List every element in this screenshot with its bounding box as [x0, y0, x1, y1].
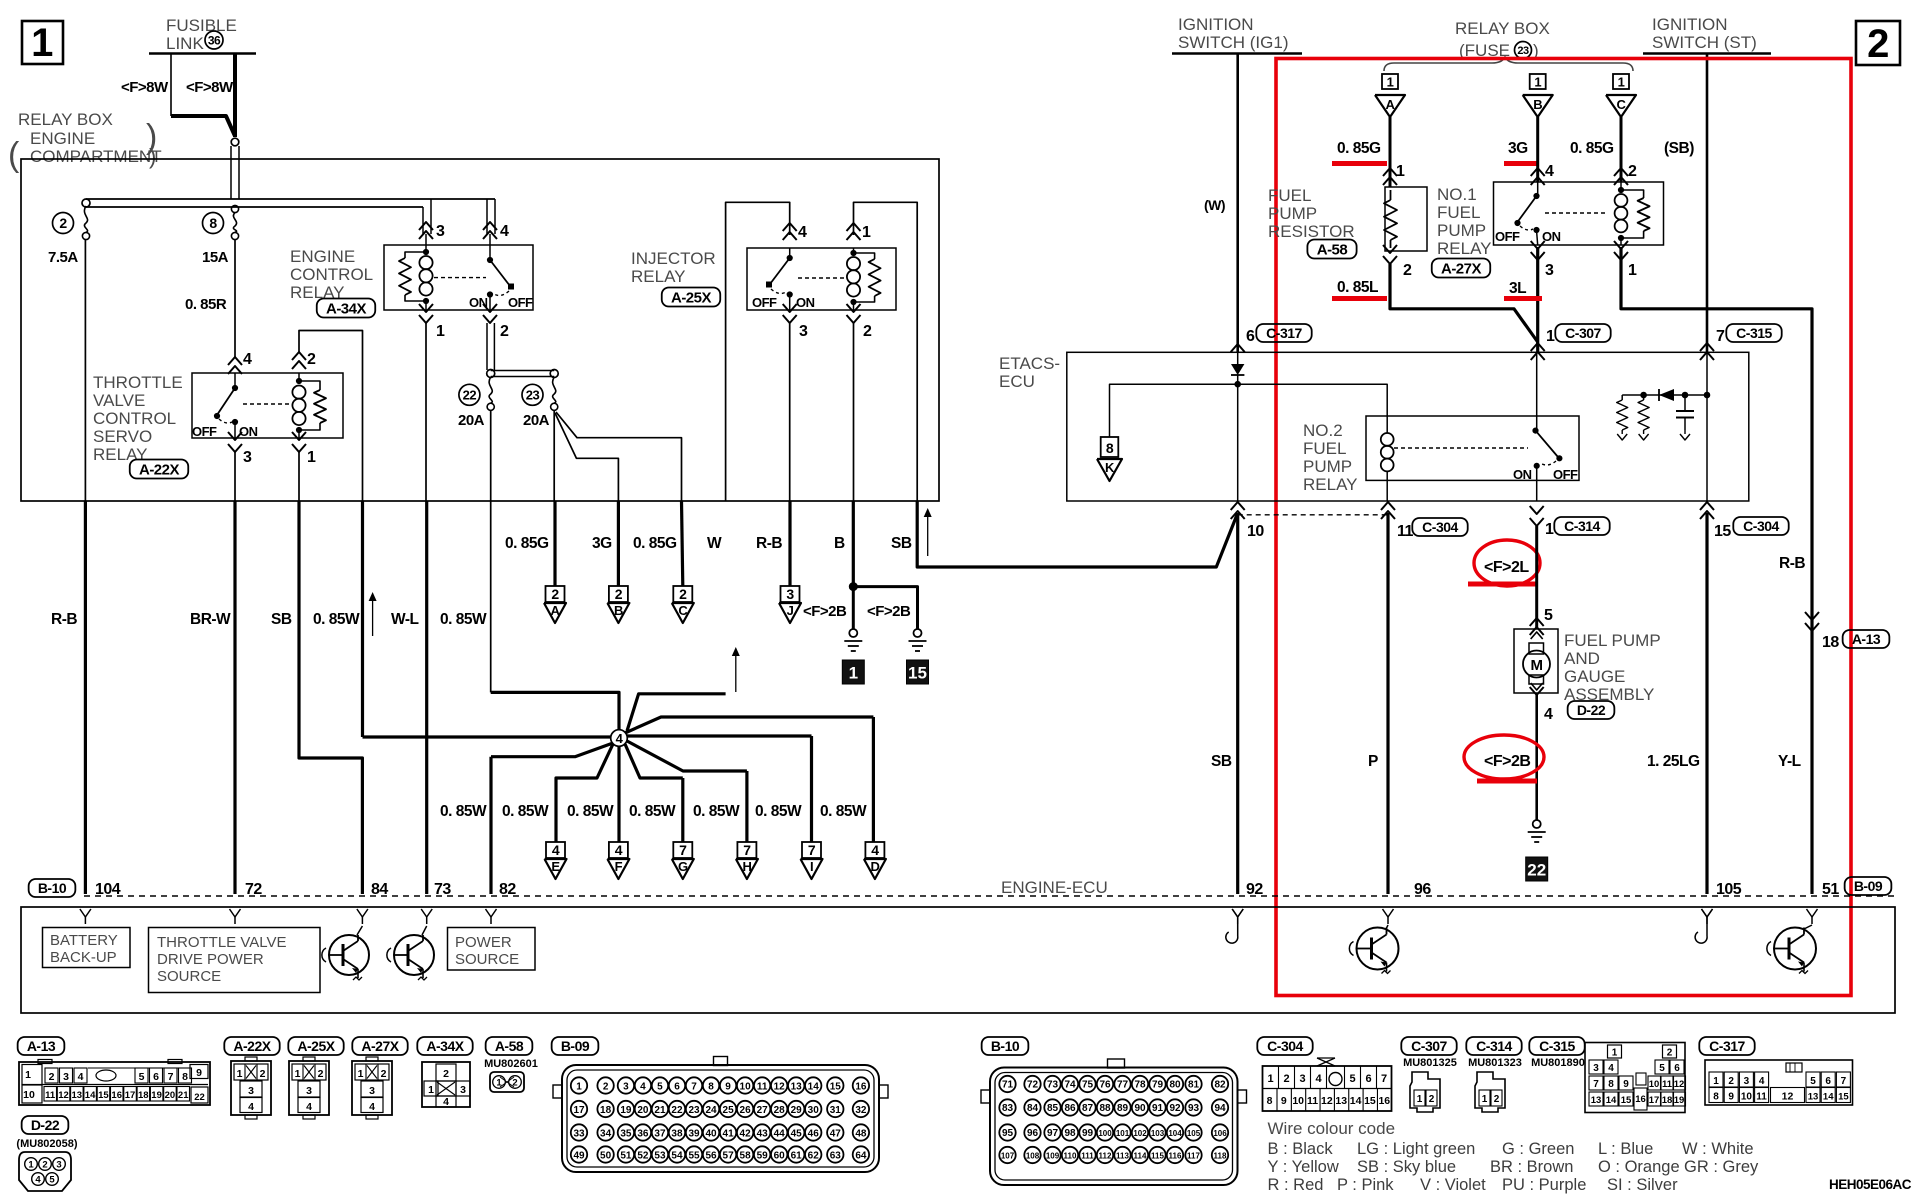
svg-text:29: 29	[791, 1105, 803, 1116]
connector 7 I	[802, 842, 821, 858]
relay A-27X pin 1	[1614, 241, 1628, 249]
svg-text:RELAY: RELAY	[631, 267, 686, 286]
svg-text:7: 7	[679, 842, 687, 858]
svg-text:26: 26	[740, 1105, 752, 1116]
svg-text:C-315: C-315	[1539, 1038, 1575, 1054]
relay A-22X switch	[232, 385, 237, 390]
svg-text:(: (	[8, 136, 20, 174]
svg-text:(MU802058): (MU802058)	[16, 1138, 77, 1150]
svg-text:4: 4	[35, 1175, 41, 1186]
svg-text:32: 32	[855, 1105, 867, 1116]
connector 2 A	[546, 586, 565, 602]
svg-text:106: 106	[1213, 1129, 1227, 1138]
svg-text:11: 11	[45, 1090, 56, 1101]
wire 0.85W to F	[617, 746, 620, 842]
svg-text:A-25X: A-25X	[671, 289, 712, 306]
svg-text:6: 6	[1674, 1063, 1680, 1074]
svg-text:I: I	[810, 859, 813, 874]
relay A-34X pin 1	[419, 304, 433, 312]
relay A-27X pin 2	[1614, 168, 1628, 176]
svg-text:14: 14	[808, 1081, 820, 1092]
svg-text:87: 87	[1082, 1103, 1094, 1114]
ECU hook 92	[1232, 909, 1243, 917]
arrow up beside SB wire	[927, 514, 929, 556]
svg-text:Wire colour code: Wire colour code	[1268, 1119, 1396, 1138]
svg-text:2: 2	[500, 323, 509, 340]
svg-text:0. 85G: 0. 85G	[633, 535, 677, 552]
svg-text:2: 2	[615, 586, 623, 602]
svg-text:NO.1: NO.1	[1437, 185, 1477, 204]
wire to resistor	[1389, 117, 1392, 187]
svg-text:MU801323: MU801323	[1468, 1057, 1522, 1069]
svg-text:8: 8	[209, 215, 217, 231]
svg-text:B-09: B-09	[1854, 878, 1883, 894]
svg-text:D-22: D-22	[1577, 702, 1606, 718]
connector A-27X drawing	[352, 1061, 392, 1115]
node dot	[1235, 381, 1241, 387]
svg-text:1: 1	[295, 1068, 301, 1080]
svg-text:(SB): (SB)	[1664, 140, 1694, 157]
svg-text:15: 15	[908, 664, 927, 683]
svg-text:102: 102	[1133, 1129, 1147, 1138]
svg-text:20: 20	[165, 1090, 176, 1101]
bus wire lower	[86, 206, 423, 208]
svg-text:SERVO: SERVO	[93, 427, 152, 446]
svg-text:ON: ON	[796, 295, 815, 310]
svg-text:4: 4	[640, 1081, 646, 1092]
svg-text:2: 2	[1728, 1076, 1734, 1087]
svg-text:MU801325: MU801325	[1403, 1057, 1457, 1069]
svg-text:37: 37	[654, 1128, 666, 1139]
svg-text:82: 82	[499, 881, 516, 898]
svg-text:1: 1	[25, 1069, 31, 1081]
svg-text:96: 96	[1027, 1128, 1039, 1139]
wire SB down from pin 1	[298, 452, 300, 501]
svg-text:G: G	[678, 859, 688, 874]
svg-text:99: 99	[1082, 1128, 1094, 1139]
svg-text:89: 89	[1117, 1103, 1129, 1114]
connector label D-22	[22, 1116, 69, 1134]
svg-text:108: 108	[1026, 1151, 1040, 1160]
svg-text:4: 4	[78, 1071, 84, 1083]
svg-text:R : Red: R : Red	[1268, 1176, 1324, 1194]
fuse connector 1 A	[1382, 74, 1398, 89]
svg-text:47: 47	[830, 1128, 842, 1139]
POWER SOURCE box	[448, 928, 536, 971]
svg-text:13: 13	[1808, 1092, 1819, 1103]
svg-text:77: 77	[1117, 1079, 1129, 1090]
svg-text:13: 13	[1591, 1095, 1602, 1106]
svg-text:Y : Yellow: Y : Yellow	[1268, 1158, 1339, 1176]
svg-text:DRIVE POWER: DRIVE POWER	[157, 951, 264, 968]
ETACS pin 15 C-304	[1700, 502, 1714, 510]
svg-text:40: 40	[705, 1128, 717, 1139]
svg-text:52: 52	[637, 1150, 649, 1161]
svg-text:3G: 3G	[1508, 140, 1528, 157]
svg-text:ENGINE: ENGINE	[30, 129, 95, 148]
relay A-34X pin 4	[483, 222, 497, 230]
connector C-317 drawing	[1705, 1060, 1853, 1105]
svg-text:0. 85W: 0. 85W	[820, 803, 867, 820]
wire BR-W down	[234, 452, 236, 501]
svg-text:C-317: C-317	[1266, 325, 1302, 341]
red underline 0.85G	[1332, 161, 1387, 166]
connector label C-315	[1529, 1037, 1584, 1055]
circled 36	[205, 31, 223, 49]
wire 3L down	[1536, 247, 1539, 352]
svg-text:10: 10	[1649, 1079, 1660, 1090]
internal node line	[1622, 394, 1707, 396]
svg-text:19: 19	[1674, 1095, 1685, 1106]
connector 2 C	[673, 586, 692, 602]
svg-text:8: 8	[1713, 1092, 1719, 1103]
relay A-22X pin 3	[228, 432, 242, 440]
svg-text:0. 85W: 0. 85W	[629, 803, 676, 820]
svg-text:49: 49	[573, 1150, 585, 1161]
BATTERY BACK-UP box	[43, 928, 131, 968]
svg-text:92: 92	[1246, 881, 1263, 898]
svg-text:11: 11	[1397, 523, 1414, 540]
red underline 3G	[1504, 161, 1538, 166]
svg-text:C-304: C-304	[1422, 519, 1458, 535]
svg-text:4: 4	[1315, 1073, 1322, 1085]
svg-text:10: 10	[1741, 1092, 1753, 1103]
svg-text:C-314: C-314	[1476, 1038, 1512, 1054]
wire to fuel pump	[1535, 526, 1538, 629]
svg-text:1: 1	[1482, 1094, 1488, 1105]
svg-text:6: 6	[674, 1081, 680, 1092]
svg-text:78: 78	[1134, 1079, 1146, 1090]
svg-text:B-09: B-09	[561, 1038, 590, 1054]
svg-text:97: 97	[1047, 1128, 1059, 1139]
svg-text:THROTTLE VALVE: THROTTLE VALVE	[157, 934, 286, 951]
svg-text:117: 117	[1187, 1151, 1200, 1160]
connector C-314 drawing	[1475, 1072, 1505, 1112]
svg-text:33: 33	[573, 1128, 585, 1139]
svg-text:0. 85W: 0. 85W	[440, 611, 487, 628]
svg-text:IGNITION: IGNITION	[1652, 15, 1728, 34]
svg-text:GR : Grey: GR : Grey	[1684, 1158, 1759, 1176]
svg-text:7: 7	[1381, 1073, 1387, 1085]
svg-text:PUMP: PUMP	[1437, 221, 1486, 240]
connector label A-27X	[352, 1037, 407, 1055]
svg-text:1: 1	[1612, 1048, 1618, 1059]
relay A-27X coil	[1620, 182, 1622, 190]
svg-text:4: 4	[1545, 163, 1554, 180]
svg-text:SOURCE: SOURCE	[157, 968, 221, 985]
svg-text:45: 45	[791, 1128, 803, 1139]
svg-text:3: 3	[243, 449, 252, 466]
ground 22	[1533, 820, 1541, 828]
fuse connector 1 B	[1530, 74, 1546, 89]
svg-text:4: 4	[369, 1101, 375, 1113]
svg-text:58: 58	[740, 1150, 752, 1161]
svg-text:51: 51	[1822, 881, 1839, 898]
svg-text:105: 105	[1187, 1129, 1201, 1138]
svg-text:1: 1	[358, 1068, 364, 1080]
brace under relay box fuse	[1384, 57, 1633, 71]
connector label A-27X	[1432, 259, 1491, 278]
svg-text:109: 109	[1046, 1151, 1060, 1160]
connector label D-22	[1568, 701, 1615, 719]
bus wire upper	[86, 198, 495, 200]
ground left	[849, 629, 857, 637]
svg-text:R-B: R-B	[51, 611, 77, 628]
svg-text:73: 73	[434, 881, 451, 898]
fusible link elbow	[171, 116, 235, 136]
pin 6 C-317	[1231, 344, 1245, 352]
svg-text:W: W	[707, 535, 722, 552]
svg-text:18: 18	[600, 1105, 612, 1116]
svg-text:J: J	[787, 603, 794, 618]
svg-text:1: 1	[436, 323, 445, 340]
fuse connector 1 C	[1613, 74, 1629, 89]
svg-text:SWITCH (ST): SWITCH (ST)	[1652, 33, 1757, 52]
svg-text:92: 92	[1169, 1103, 1181, 1114]
svg-text:6: 6	[1825, 1076, 1831, 1087]
svg-text:(W): (W)	[1204, 197, 1225, 213]
wire to connector 8K	[1110, 384, 1238, 437]
svg-text:2: 2	[443, 1068, 449, 1080]
svg-text:91: 91	[1152, 1103, 1164, 1114]
svg-text:4: 4	[871, 842, 879, 858]
svg-text:59: 59	[757, 1150, 769, 1161]
svg-text:IGNITION: IGNITION	[1178, 15, 1254, 34]
svg-text:4: 4	[248, 1101, 254, 1113]
connector C-307 drawing	[1410, 1072, 1440, 1112]
svg-text:L : Blue: L : Blue	[1598, 1140, 1653, 1158]
svg-text:): )	[149, 144, 156, 169]
svg-text:MU802601: MU802601	[484, 1058, 538, 1070]
svg-text:15: 15	[1621, 1095, 1632, 1106]
svg-text:94: 94	[1214, 1103, 1226, 1114]
motor M	[1529, 643, 1544, 654]
svg-text:2: 2	[307, 351, 316, 368]
svg-text:0. 85W: 0. 85W	[693, 803, 740, 820]
wire B down	[853, 323, 855, 501]
wire 3G to relay	[1536, 117, 1539, 182]
svg-text:13: 13	[1335, 1095, 1347, 1107]
bus end circle	[82, 199, 90, 207]
svg-text:61: 61	[791, 1150, 803, 1161]
relay A-25X pin 1	[847, 223, 861, 231]
ETACS pin 11 C-304	[1381, 502, 1395, 510]
svg-text:C-315: C-315	[1736, 325, 1772, 341]
svg-text:11: 11	[757, 1081, 768, 1092]
wire SB to ECU 92	[1236, 513, 1239, 894]
wire 0.85W A22X to junction	[361, 501, 364, 737]
svg-text:D: D	[870, 859, 879, 874]
connector B-10 drawing	[990, 1068, 1238, 1186]
connector A-22X drawing	[231, 1061, 271, 1115]
svg-text:K: K	[1105, 460, 1115, 475]
fuse 8 15A	[231, 205, 238, 212]
svg-text:SB: SB	[1211, 753, 1232, 770]
connector 4 E	[546, 842, 565, 858]
svg-text:2: 2	[679, 586, 687, 602]
ground branch junction	[849, 583, 857, 591]
red underline 2L	[1468, 582, 1537, 587]
svg-text:3: 3	[460, 1084, 466, 1096]
ECU transistor 96	[1357, 928, 1399, 970]
svg-text:A-58: A-58	[1317, 241, 1348, 258]
svg-text:42: 42	[740, 1128, 752, 1139]
svg-text:BR : Brown: BR : Brown	[1490, 1158, 1573, 1176]
svg-text:31: 31	[830, 1105, 842, 1116]
svg-text:28: 28	[774, 1105, 786, 1116]
wire 0.85G C branch	[556, 412, 682, 501]
svg-text:OFF: OFF	[752, 295, 777, 310]
svg-text:D-22: D-22	[31, 1117, 60, 1133]
svg-text:3: 3	[1299, 1073, 1305, 1085]
connector 7 H	[737, 842, 756, 858]
svg-text:1: 1	[862, 224, 871, 241]
svg-text:1: 1	[307, 449, 316, 466]
connector label A-58	[486, 1037, 533, 1055]
red ellipse 2B	[1464, 735, 1544, 779]
svg-text:10: 10	[1247, 523, 1264, 540]
svg-text:36: 36	[637, 1128, 649, 1139]
svg-text:SB : Sky blue: SB : Sky blue	[1357, 1158, 1456, 1176]
ETACS-ECU box	[1067, 352, 1749, 501]
svg-text:A-13: A-13	[1852, 631, 1881, 647]
connector label C-314	[1466, 1037, 1521, 1055]
svg-text:23: 23	[688, 1105, 700, 1116]
svg-text:9: 9	[1728, 1092, 1734, 1103]
ECU transistor 84	[329, 935, 369, 975]
svg-text:36: 36	[208, 33, 221, 47]
svg-text:ON: ON	[239, 424, 258, 439]
svg-text:21: 21	[654, 1105, 666, 1116]
svg-text:2: 2	[59, 215, 67, 231]
relay A-34X pin 2	[483, 304, 497, 312]
connector label B-10	[982, 1037, 1029, 1055]
wire 0.85W to E	[556, 744, 613, 842]
svg-text:<F>2L: <F>2L	[1484, 559, 1529, 576]
svg-text:A-27X: A-27X	[361, 1038, 399, 1054]
svg-text:2: 2	[49, 1071, 55, 1083]
connector label A-34X	[317, 299, 376, 318]
relay box engine compartment outline	[21, 159, 939, 501]
svg-text:4: 4	[500, 223, 509, 240]
connector C-304 drawing	[1263, 1066, 1392, 1111]
relay A-27X switch	[1537, 182, 1539, 196]
connector 4 D	[865, 842, 884, 858]
svg-text:103: 103	[1151, 1129, 1165, 1138]
page number 2 box	[1856, 21, 1900, 65]
svg-text:4: 4	[306, 1101, 312, 1113]
pin 1 C-307	[1531, 343, 1545, 351]
svg-text:7: 7	[1593, 1079, 1599, 1090]
fusible link bus bar	[149, 52, 256, 55]
relay A-34X box	[384, 245, 533, 310]
ETACS pin 1 C-314	[1530, 506, 1544, 514]
svg-text:13: 13	[791, 1081, 803, 1092]
svg-text:8: 8	[1608, 1079, 1614, 1090]
svg-text:3: 3	[786, 586, 794, 602]
svg-text:OFF: OFF	[508, 295, 533, 310]
svg-text:1: 1	[1546, 328, 1555, 345]
dashed pin10-pin11	[1238, 514, 1388, 516]
relay NO.2 switch	[1536, 352, 1538, 430]
svg-text:43: 43	[757, 1128, 769, 1139]
svg-text:38: 38	[671, 1128, 683, 1139]
pin 7 C-315	[1700, 343, 1714, 351]
svg-text:9: 9	[196, 1067, 202, 1079]
svg-text:SWITCH (IG1): SWITCH (IG1)	[1178, 33, 1289, 52]
svg-text:V : Violet: V : Violet	[1420, 1176, 1486, 1194]
svg-text:3: 3	[369, 1085, 375, 1097]
svg-text:86: 86	[1064, 1103, 1076, 1114]
svg-text:FUEL: FUEL	[1268, 186, 1311, 205]
svg-text:12: 12	[774, 1081, 786, 1092]
svg-text:7: 7	[743, 842, 751, 858]
svg-text:0. 85L: 0. 85L	[1337, 279, 1378, 296]
svg-text:5: 5	[1810, 1076, 1816, 1087]
junction node 4	[611, 730, 628, 747]
svg-text:110: 110	[1064, 1151, 1077, 1160]
svg-text:80: 80	[1169, 1079, 1181, 1090]
svg-text:M: M	[1531, 657, 1543, 674]
connector A-58 drawing	[490, 1072, 524, 1092]
svg-text:2: 2	[1667, 1048, 1673, 1059]
svg-text:4: 4	[798, 224, 807, 241]
ECU hook 105	[1702, 909, 1713, 917]
svg-text:98: 98	[1064, 1128, 1076, 1139]
svg-text:3: 3	[1593, 1063, 1599, 1074]
svg-text:SB: SB	[271, 611, 292, 628]
svg-text:53: 53	[654, 1150, 666, 1161]
svg-text:3: 3	[799, 323, 808, 340]
svg-text:ENGINE-ECU: ENGINE-ECU	[1001, 878, 1108, 897]
svg-text:4: 4	[443, 1096, 449, 1108]
ECU transistor 51	[1774, 928, 1816, 970]
svg-text:A-22X: A-22X	[139, 461, 180, 478]
svg-text:ECU: ECU	[999, 372, 1035, 391]
svg-text:71: 71	[1002, 1079, 1014, 1090]
svg-text:RELAY: RELAY	[1437, 239, 1492, 258]
relay A-22X pin 2	[292, 352, 306, 360]
svg-text:1: 1	[496, 1078, 502, 1089]
red highlight box	[1276, 59, 1851, 996]
connector A-13 drawing	[19, 1062, 210, 1105]
svg-text:46: 46	[808, 1128, 820, 1139]
relay A-22X box	[192, 373, 343, 438]
svg-text:THROTTLE: THROTTLE	[93, 373, 183, 392]
wire P to ECU 96	[1386, 513, 1389, 894]
internal diode	[1659, 389, 1674, 401]
svg-text:7: 7	[168, 1071, 174, 1083]
relay A-22X pin 1	[292, 432, 306, 440]
svg-text:12: 12	[58, 1090, 69, 1101]
svg-text:4: 4	[1759, 1076, 1765, 1087]
connector label C-307	[1401, 1037, 1456, 1055]
svg-text:OFF: OFF	[1495, 229, 1520, 244]
svg-text:6: 6	[1246, 328, 1255, 345]
svg-text:1: 1	[31, 21, 53, 65]
svg-text:3: 3	[1545, 262, 1554, 279]
svg-text:19: 19	[151, 1090, 162, 1101]
svg-text:1: 1	[1396, 163, 1405, 180]
svg-text:ENGINE: ENGINE	[290, 247, 355, 266]
relay A-34X coil	[425, 234, 427, 252]
svg-text:5: 5	[49, 1175, 55, 1186]
svg-text:51: 51	[620, 1150, 632, 1161]
svg-text:B: B	[1533, 97, 1542, 112]
svg-text:73: 73	[1047, 1079, 1059, 1090]
svg-text:FUEL: FUEL	[1303, 439, 1346, 458]
svg-text:0. 85G: 0. 85G	[1570, 140, 1614, 157]
